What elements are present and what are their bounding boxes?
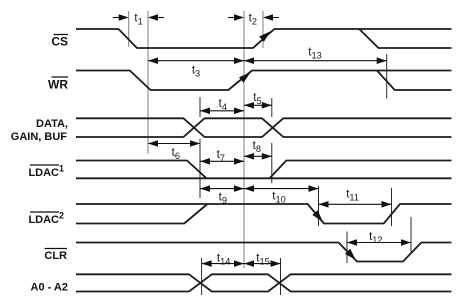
svg-text:1: 1 xyxy=(59,164,64,174)
tick at DATA changeover 2 / LDAC1 rise (t5,t8) xyxy=(271,98,273,117)
dimension arrow t9 xyxy=(200,185,244,192)
svg-text:LDAC: LDAC xyxy=(28,214,59,226)
label CS (active low) xyxy=(51,35,68,49)
svg-text:t1: t1 xyxy=(134,13,142,27)
svg-text:t7: t7 xyxy=(217,149,225,163)
dimension arrow t13 xyxy=(244,57,387,64)
arrowhead on WR rising edge xyxy=(239,72,251,82)
dimension arrow t8 xyxy=(244,153,272,160)
svg-text:t6: t6 xyxy=(172,147,180,161)
svg-text:t4: t4 xyxy=(219,98,227,112)
svg-text:2: 2 xyxy=(59,211,64,221)
reference line t1 right / t3,t6 origin (WR falling edge), long xyxy=(147,11,149,154)
dimension arrow t11 xyxy=(319,201,392,208)
reference line t2 left / WR rising edge, long (runs to A0-A2 bus) xyxy=(243,11,245,268)
label LDAC2 (active low, case 2) xyxy=(28,211,64,227)
dimension arrow t1 right (outside) xyxy=(148,14,164,21)
dimension arrow t1 left (outside) xyxy=(113,14,129,21)
svg-text:t14: t14 xyxy=(217,253,230,267)
dimension arrow t3 xyxy=(148,57,244,64)
tick t15 right (A0-A2 changeover 2) xyxy=(280,258,282,295)
svg-text:t10: t10 xyxy=(272,191,285,205)
svg-text:DATA,: DATA, xyxy=(36,118,68,130)
tick at DATA changeover 1 / LDAC1 fall (t4,t6,t7,t9) xyxy=(199,97,201,117)
dimension arrow t10 xyxy=(244,185,319,192)
tick t14 left (A0-A2 changeover 1) xyxy=(201,258,203,295)
dimension arrow t6 xyxy=(148,140,200,147)
waveform DATA/GAIN/BUF bus with two changeovers xyxy=(76,118,452,137)
svg-text:t15: t15 xyxy=(256,253,269,267)
svg-text:CS: CS xyxy=(51,35,68,49)
dimension arrow t7 xyxy=(200,158,244,165)
dimension arrow t2 right (outside) xyxy=(263,14,279,21)
svg-text:t3: t3 xyxy=(192,65,200,79)
arrowhead on LDAC2 falling edge xyxy=(312,210,323,222)
tick t12 left (CLR fall) xyxy=(346,232,348,264)
reference line t2 right (CS rising edge) xyxy=(262,11,264,48)
waveform CS: high rail, falling edge, low, rising edge w/ arrowhead, second fall xyxy=(76,29,452,48)
dimension arrow t14 xyxy=(202,260,244,267)
waveform LDAC2: low rail rises, high rail, fall w/ arrowhead, low pulse, rise xyxy=(76,204,207,224)
svg-text:t11: t11 xyxy=(346,189,359,203)
tick t10 right / t11 left (LDAC2 fall) xyxy=(318,186,320,226)
waveform A0 - A2 address bus with two changeovers xyxy=(76,274,452,291)
waveform WR: high rail, fall, low, rise w/ arrowhead, second fall xyxy=(76,71,452,91)
arrowhead on CS rising edge xyxy=(259,31,270,42)
dimension arrow t12 xyxy=(347,239,411,246)
dimension arrow t2 left (outside) xyxy=(228,14,244,21)
arrowhead on CLR falling edge xyxy=(345,249,356,260)
svg-text:t12: t12 xyxy=(369,231,382,245)
tick t11 right (LDAC2 rise) xyxy=(391,188,393,226)
label WR (active low) xyxy=(48,77,68,92)
tick t13 right (WR second fall) xyxy=(386,54,388,99)
dimension arrow t5 xyxy=(244,102,272,109)
waveform LDAC1: low rail full width, high rail falling then rising again xyxy=(76,177,452,179)
label DATA, GAIN, BUF xyxy=(11,118,68,143)
dimension arrow t15 xyxy=(244,260,281,267)
svg-text:A0 - A2: A0 - A2 xyxy=(31,282,69,294)
label LDAC1 (active low, case 1) xyxy=(28,164,64,180)
label CLR (active low) xyxy=(44,249,67,263)
svg-text:WR: WR xyxy=(48,78,68,92)
waveform CLR: high, fall w/ arrowhead, low pulse, rise xyxy=(76,243,452,262)
svg-text:t9: t9 xyxy=(219,192,227,206)
svg-text:LDAC: LDAC xyxy=(28,167,59,179)
svg-text:t2: t2 xyxy=(249,13,257,27)
dimension arrow t4 xyxy=(200,108,244,115)
svg-text:t5: t5 xyxy=(253,92,261,106)
tick t12 right (CLR rise) xyxy=(410,217,412,252)
svg-text:t8: t8 xyxy=(253,140,261,154)
svg-text:CLR: CLR xyxy=(44,250,67,262)
reference line t1 left (CS falling edge) xyxy=(128,11,130,47)
svg-text:t13: t13 xyxy=(308,47,321,61)
svg-text:GAIN, BUF: GAIN, BUF xyxy=(11,131,68,143)
